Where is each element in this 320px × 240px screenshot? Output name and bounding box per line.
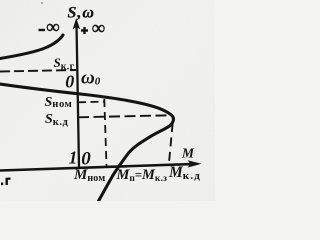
svg-text:1: 1 (69, 148, 78, 168)
svg-text:∞: ∞ (92, 18, 106, 39)
label .g (cropped left) (1, 178, 11, 185)
dashed line S k.g level (0, 70, 76, 72)
label +infinity (81, 18, 105, 39)
speck top (41, 2, 43, 4)
svg-text:0: 0 (65, 72, 74, 92)
dashed line M nom vertical (104, 99, 106, 166)
curve generator branch (upper left) (0, 35, 63, 59)
axis M (horizontal) (0, 160, 202, 170)
arrowhead vertical axis (73, 18, 81, 30)
dashed line S k.d level (78, 115, 170, 117)
svg-text:M: M (181, 145, 195, 160)
curve main characteristic (0, 84, 174, 201)
paper background (0, 0, 215, 201)
arrowhead M axis (188, 160, 202, 167)
svg-text:∞: ∞ (46, 17, 60, 38)
dashed line M k.d vertical (169, 123, 173, 163)
axis S,omega (vertical) (73, 18, 81, 167)
dashed line S nom level (78, 101, 105, 104)
label -infinity (39, 17, 60, 38)
